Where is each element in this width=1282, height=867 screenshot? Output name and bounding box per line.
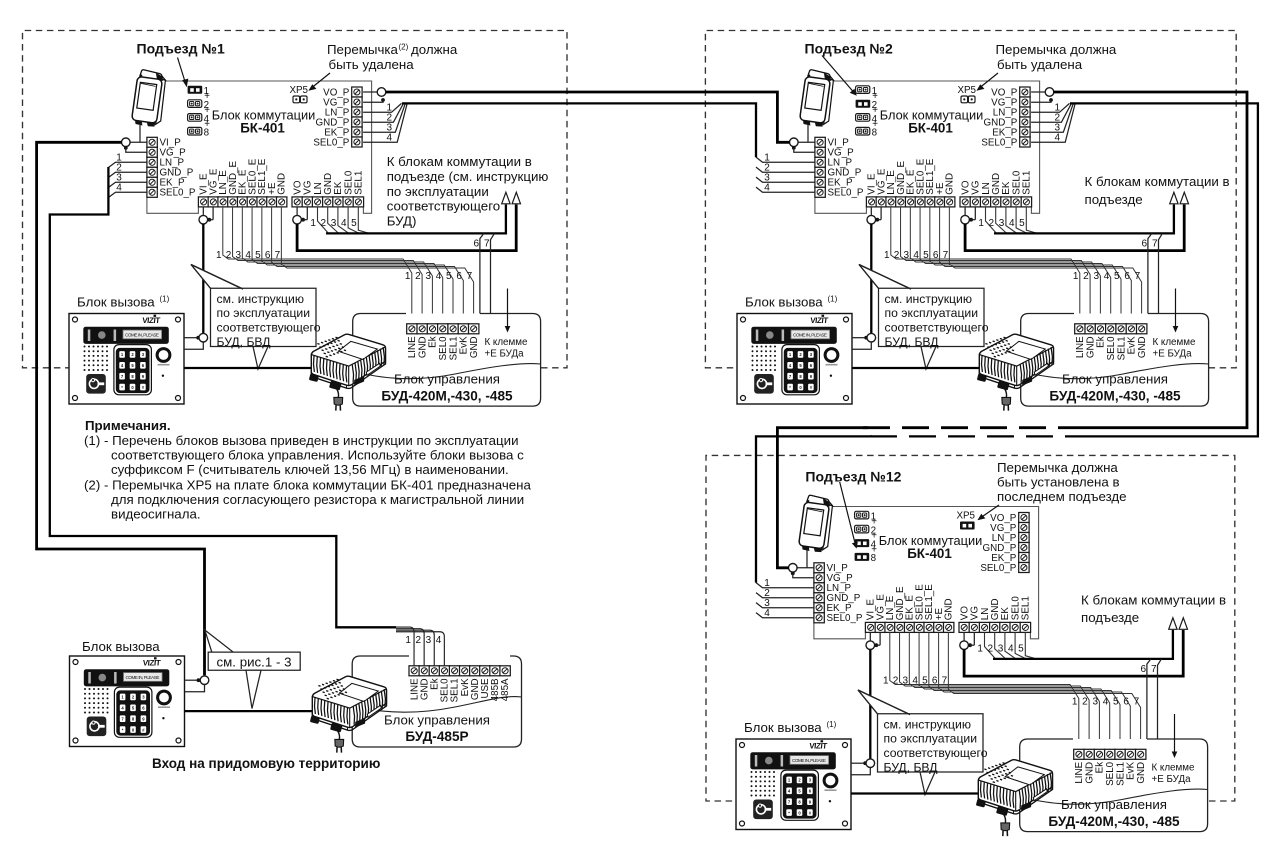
svg-text:6: 6 <box>1123 697 1129 708</box>
svg-text:3: 3 <box>904 250 910 261</box>
svg-text:подъезде: подъезде <box>1085 192 1143 207</box>
svg-text:2: 2 <box>415 271 421 282</box>
jumper 1 entrance 2 (open) <box>856 86 870 94</box>
svg-text:по эксплуатации: по эксплуатации <box>217 306 311 320</box>
callout см. инструкцию <box>858 690 910 715</box>
svg-text:7: 7 <box>1151 664 1157 675</box>
svg-text:Блок управления: Блок управления <box>1061 797 1167 812</box>
svg-text:+Е БУДа: +Е БУДа <box>485 349 525 360</box>
svg-text:1: 1 <box>977 644 983 655</box>
svg-text:Подъезд №1: Подъезд №1 <box>137 40 225 56</box>
svg-text:XP5: XP5 <box>289 85 308 96</box>
svg-text:5: 5 <box>1018 644 1024 655</box>
junction node at VI_P <box>797 567 814 569</box>
svg-text:подъезде: подъезде <box>1081 610 1139 625</box>
svg-text:2: 2 <box>894 250 900 261</box>
jumper 8 entrance 12 (closed) <box>855 553 870 561</box>
terminal strip VO_P..SEL0_P (right) entrance 2 <box>981 87 1030 148</box>
svg-text:Блок вызова: Блок вызова <box>77 295 155 310</box>
svg-text:4: 4 <box>436 635 442 646</box>
terminal strip LINE..GND БУД <box>1075 324 1148 361</box>
terminal strip LINE..GND БУД <box>1074 749 1147 786</box>
BK-401 board outline entrance 2 <box>831 81 1040 213</box>
node at gate call panel <box>185 679 200 681</box>
svg-text:4: 4 <box>764 183 770 194</box>
svg-text:БУД, БВД: БУД, БВД <box>885 335 940 349</box>
svg-text:8: 8 <box>872 128 878 139</box>
svg-text:Блок вызова: Блок вызова <box>745 295 823 310</box>
wires 1-5 from LN..SEL1 to floor bus <box>986 207 1038 234</box>
wires 1-4 to next entrance <box>363 103 407 142</box>
svg-text:3: 3 <box>425 271 431 282</box>
wire LINE call panel to БУД <box>851 792 997 794</box>
svg-text:2: 2 <box>1082 697 1088 708</box>
svg-text:Перемычка должна: Перемычка должна <box>997 460 1118 475</box>
svg-text:5: 5 <box>922 676 928 687</box>
svg-text:3: 3 <box>998 644 1004 655</box>
svg-text:К блокам коммутации в: К блокам коммутации в <box>1081 592 1226 607</box>
svg-text:К клемме: К клемме <box>1152 762 1195 773</box>
svg-text:см. инструкцию: см. инструкцию <box>884 717 971 731</box>
svg-text:Подъезд №12: Подъезд №12 <box>805 468 901 484</box>
svg-text:6: 6 <box>473 239 479 250</box>
junction node at VO_P (video out) <box>363 91 377 93</box>
svg-text:4: 4 <box>764 608 770 619</box>
camera (video intercom) entrance 12 <box>798 495 834 554</box>
svg-text:соответствующего: соответствующего <box>217 321 321 335</box>
wire video trunk entrance1 to entrance2 <box>386 92 790 142</box>
jumper 2 entrance 2 (closed) <box>856 100 871 108</box>
svg-text:4: 4 <box>1055 133 1061 144</box>
jumper 1 entrance 1 (closed) <box>188 86 203 94</box>
svg-text:Подъезд №2: Подъезд №2 <box>805 40 893 56</box>
svg-text:5: 5 <box>923 250 929 261</box>
svg-text:7: 7 <box>1134 697 1140 708</box>
svg-text:по эксплуатации: по эксплуатации <box>884 732 978 746</box>
svg-text:6: 6 <box>933 250 939 261</box>
svg-text:последнем подъезде: последнем подъезде <box>997 489 1127 504</box>
call panel (блок вызова) entrance 12 <box>736 739 851 830</box>
wire camera to VI_P <box>806 550 808 568</box>
svg-text:Блок вызова: Блок вызова <box>744 720 822 735</box>
wire 4-bus entrance1 to gate БУД-485Р <box>50 167 396 627</box>
wires 1-7 VI_E strip to control unit <box>223 207 474 324</box>
control unit БУД (power supply unit drawing) <box>309 334 386 410</box>
wavy separator <box>1020 789 1208 804</box>
node at call panel <box>852 337 867 339</box>
svg-text:6: 6 <box>265 250 271 261</box>
terminal strip VO..SEL1 entrance 2 <box>960 170 1033 207</box>
wire (thick) VI_E node down to call panel <box>869 650 871 760</box>
wire (thick) VI_E node down to call panel <box>870 224 872 334</box>
call panel (блок вызова) entrance 2 <box>737 314 852 405</box>
svg-text:6: 6 <box>1124 271 1130 282</box>
svg-text:3: 3 <box>999 218 1005 229</box>
wire LINE call panel to БУД <box>184 367 330 369</box>
svg-text:7: 7 <box>467 271 473 282</box>
control unit box БУД-420М <box>1020 739 1208 832</box>
svg-text:4: 4 <box>1008 644 1014 655</box>
terminal strip VI_E..GND entrance 1 <box>198 158 287 207</box>
svg-text:соответствующего: соответствующего <box>387 199 500 214</box>
node at call panel <box>851 762 866 764</box>
junction node under VO <box>296 207 298 216</box>
svg-text:БУД, БВД: БУД, БВД <box>217 335 272 349</box>
arrow triangles to floor switching blocks <box>1170 192 1178 204</box>
svg-text:3: 3 <box>1093 271 1099 282</box>
terminal strip VI_P..SEL0_P (left) entrance 1 <box>147 137 196 198</box>
svg-text:7: 7 <box>1152 239 1158 250</box>
svg-text:К клемме: К клемме <box>485 337 528 348</box>
svg-text:(1): (1) <box>827 720 837 729</box>
wire LINE gate panel to БУД-485Р <box>185 710 322 712</box>
svg-text:2: 2 <box>988 644 994 655</box>
dashed boundary box entrance 2 <box>705 31 1236 368</box>
svg-text:см. рис.1 - 3: см. рис.1 - 3 <box>217 654 292 669</box>
floor bus (thick) to triangle 1 <box>994 205 1174 234</box>
svg-text:3: 3 <box>236 250 242 261</box>
svg-text:4: 4 <box>1103 697 1109 708</box>
jumper 8 entrance 1 (open) <box>188 127 202 135</box>
terminal strip VO_P..SEL0_P (right) entrance 1 <box>313 87 362 148</box>
svg-text:Перемычка должна: Перемычка должна <box>996 42 1117 57</box>
svg-text:4: 4 <box>913 250 919 261</box>
svg-text:соответствующего блока управле: соответствующего блока управления. Испол… <box>111 448 524 463</box>
wires 1-4 into БУД-485Р <box>396 627 444 666</box>
arrow triangles to floor switching blocks <box>1169 618 1177 630</box>
svg-text:2: 2 <box>226 250 232 261</box>
junction node at VI_P <box>130 141 147 143</box>
terminal strip VI_P..SEL0_P (left) entrance 12 <box>814 563 863 624</box>
svg-text:видеосигнала.: видеосигнала. <box>111 507 201 522</box>
wavy separator <box>352 697 521 713</box>
wavy separator <box>1021 364 1209 379</box>
dashed boundary box entrance 1 <box>23 31 568 368</box>
wire (video) VO node to riser triangle <box>964 630 1183 676</box>
svg-text:Блок управления: Блок управления <box>384 712 490 727</box>
svg-text:(1) - Перечень блоков вызова п: (1) - Перечень блоков вызова приведен в … <box>84 433 519 448</box>
svg-text:1: 1 <box>978 218 984 229</box>
svg-text:7: 7 <box>1135 271 1141 282</box>
junction node under VI_E <box>202 207 204 216</box>
jumper 4 entrance 12 (closed) <box>855 539 870 547</box>
floor bus (thick) to triangle 1 <box>326 205 506 234</box>
svg-text:5: 5 <box>255 250 261 261</box>
svg-text:(1): (1) <box>160 295 170 304</box>
callout см. инструкцию <box>859 265 911 290</box>
svg-text:см. инструкцию: см. инструкцию <box>885 292 972 306</box>
wire (video) VO node to riser triangle <box>965 205 1184 251</box>
svg-text:7: 7 <box>943 250 949 261</box>
wire 4-bus trunk entrance1 to entrance2 <box>402 103 756 157</box>
svg-text:по эксплуатации: по эксплуатации <box>885 306 979 320</box>
junction node under VI_E <box>870 207 872 216</box>
svg-text:3: 3 <box>331 218 337 229</box>
jumper 4 entrance 1 (open) <box>188 114 202 122</box>
svg-text:1: 1 <box>884 250 890 261</box>
svg-text:4: 4 <box>387 133 393 144</box>
svg-text:см. инструкцию: см. инструкцию <box>217 292 304 306</box>
svg-text:8: 8 <box>204 128 210 139</box>
svg-text:К клемме: К клемме <box>1153 337 1196 348</box>
svg-text:3: 3 <box>1092 697 1098 708</box>
svg-text:Примечания.: Примечания. <box>85 418 171 433</box>
svg-text:Блок управления: Блок управления <box>394 372 500 387</box>
camera (video intercom) entrance 1 <box>131 69 167 128</box>
svg-text:для подключения согласующего р: для подключения согласующего резистора к… <box>111 492 524 507</box>
svg-text:должна: должна <box>411 42 458 57</box>
svg-text:БУД): БУД) <box>387 214 417 229</box>
svg-text:4: 4 <box>436 271 442 282</box>
svg-text:подъезде (см. инструкцию: подъезде (см. инструкцию <box>387 169 549 184</box>
svg-text:Блок вызова: Блок вызова <box>82 639 160 654</box>
camera (video intercom) entrance 2 <box>799 69 835 128</box>
svg-text:(2): (2) <box>399 42 409 51</box>
jumper 2 entrance 1 (open) <box>188 100 202 108</box>
wire camera to VI_P <box>807 124 809 142</box>
wire (thick) VI_E node down to call panel <box>202 224 204 334</box>
wires 1-7 VI_E strip to control unit <box>890 632 1141 749</box>
svg-text:6: 6 <box>1140 664 1146 675</box>
terminal strip VI_E..GND entrance 12 <box>865 584 954 633</box>
jumper 2 entrance 12 (open) <box>855 525 869 533</box>
svg-text:быть установлена в: быть установлена в <box>997 474 1120 489</box>
junction node at VO_P (video out) <box>1031 91 1045 93</box>
svg-text:К блокам коммутации в: К блокам коммутации в <box>387 154 532 169</box>
control unit БУД-485Р (power supply unit drawing) <box>310 676 387 752</box>
svg-text:(1): (1) <box>828 295 838 304</box>
jumper 4 entrance 2 (open) <box>856 114 870 122</box>
svg-text:4: 4 <box>912 676 918 687</box>
wires 1-4 to trunk bus (entrance 1) <box>108 162 146 197</box>
svg-text:4: 4 <box>1009 218 1015 229</box>
wires 6,7 (EvK,GND) to floor bus <box>1133 233 1162 324</box>
wires 1-5 from LN..SEL1 to floor bus <box>318 207 370 234</box>
svg-text:по эксплуатации: по эксплуатации <box>387 184 489 199</box>
wires 6,7 (EvK,GND) to floor bus <box>465 233 494 324</box>
wire camera to VI_P <box>139 124 141 142</box>
svg-text:(2) - Перемычка ХР5 на плате б: (2) - Перемычка ХР5 на плате блока комму… <box>84 477 531 492</box>
terminal strip VI_P..SEL0_P (left) entrance 2 <box>815 137 864 198</box>
BK-401 board outline entrance 1 <box>163 81 372 213</box>
svg-text:XP5: XP5 <box>956 511 975 522</box>
svg-text:БК-401: БК-401 <box>907 546 952 561</box>
arrow triangles to floor switching blocks <box>502 192 510 204</box>
svg-text:5: 5 <box>1114 271 1120 282</box>
svg-text:Вход на придомовую территорию: Вход на придомовую территорию <box>152 756 380 771</box>
jumper 1 entrance 12 (open) <box>855 511 869 519</box>
svg-text:+Е БУДа: +Е БУДа <box>1152 774 1192 785</box>
wires 1-4 from trunk bus <box>756 583 814 618</box>
junction node under VO <box>964 207 966 216</box>
svg-text:4: 4 <box>245 250 251 261</box>
svg-text:2: 2 <box>1083 271 1089 282</box>
svg-text:4: 4 <box>116 183 122 194</box>
dashed boundary box entrance 12 <box>706 455 1235 801</box>
svg-text:1: 1 <box>1073 271 1079 282</box>
svg-text:суффиксом F (считыватель ключе: суффиксом F (считыватель ключей 13,56 МГ… <box>111 462 509 477</box>
svg-text:6: 6 <box>1141 239 1147 250</box>
svg-text:7: 7 <box>942 676 948 687</box>
wavy separator <box>353 364 541 379</box>
svg-text:БК-401: БК-401 <box>908 121 953 136</box>
svg-text:БУД, БВД: БУД, БВД <box>884 761 939 775</box>
svg-text:3: 3 <box>903 676 909 687</box>
wires 1-4 from trunk bus <box>756 157 815 192</box>
call panel (блок вызова) entrance 1 <box>69 314 184 405</box>
svg-text:соответствующего: соответствующего <box>884 746 988 760</box>
svg-text:3: 3 <box>426 635 432 646</box>
callout см. рис.1 - 3 <box>205 630 234 653</box>
junction node under VO <box>963 632 965 641</box>
control unit box БУД-485Р <box>352 656 521 747</box>
wires 1-7 VI_E strip to control unit <box>891 207 1142 324</box>
svg-text:БУД-420М,-430, -485: БУД-420М,-430, -485 <box>381 388 513 403</box>
svg-text:8: 8 <box>871 553 877 564</box>
wires 1-5 from LN..SEL1 to floor bus <box>985 632 1037 659</box>
junction node under VI_E <box>869 632 871 641</box>
floor bus (thick) to triangle 1 <box>993 630 1173 659</box>
svg-text:6: 6 <box>932 676 938 687</box>
svg-text:БУД-485Р: БУД-485Р <box>405 729 468 744</box>
svg-text:XP5: XP5 <box>957 85 976 96</box>
svg-text:1: 1 <box>405 635 411 646</box>
svg-text:1: 1 <box>405 271 411 282</box>
svg-text:1: 1 <box>310 218 316 229</box>
svg-text:1: 1 <box>883 676 889 687</box>
control unit box БУД-420М <box>1021 314 1209 407</box>
svg-text:4: 4 <box>341 218 347 229</box>
control unit box БУД-420М <box>353 314 541 407</box>
control unit БУД (power supply unit drawing) <box>976 760 1053 836</box>
svg-text:БК-401: БК-401 <box>240 121 285 136</box>
svg-text:Блок управления: Блок управления <box>1062 372 1168 387</box>
svg-text:Перемычка: Перемычка <box>327 42 398 57</box>
terminal strip VI_E..GND entrance 2 <box>866 158 955 207</box>
terminal strip VO..SEL1 entrance 1 <box>292 170 365 207</box>
wire (video) VO node to riser triangle <box>297 205 516 251</box>
svg-text:5: 5 <box>351 218 357 229</box>
terminal strip VO_P..SEL0_P (right) entrance 12 <box>980 513 1029 574</box>
svg-text:5: 5 <box>446 271 452 282</box>
svg-text:БУД-420М,-430, -485: БУД-420М,-430, -485 <box>1049 388 1181 403</box>
svg-text:2: 2 <box>989 218 995 229</box>
BK-401 board outline entrance 12 <box>830 507 1039 639</box>
svg-text:+Е БУДа: +Е БУДа <box>1153 349 1193 360</box>
svg-text:2: 2 <box>321 218 327 229</box>
svg-text:2: 2 <box>416 635 422 646</box>
svg-text:7: 7 <box>484 239 490 250</box>
svg-text:4: 4 <box>1104 271 1110 282</box>
svg-text:быть удалена: быть удалена <box>997 57 1083 72</box>
svg-text:5: 5 <box>1113 697 1119 708</box>
svg-text:быть удалена: быть удалена <box>329 57 415 72</box>
wires 1-4 to next entrance <box>1031 103 1075 142</box>
svg-text:1: 1 <box>216 250 222 261</box>
callout см. инструкцию <box>191 265 243 290</box>
wire video entrance1 to gate call panel <box>37 142 205 675</box>
call panel gate (блок вызова) <box>70 656 185 747</box>
svg-text:соответствующего: соответствующего <box>885 321 989 335</box>
control unit БУД (power supply unit drawing) <box>977 334 1054 410</box>
svg-text:6: 6 <box>456 271 462 282</box>
svg-text:5: 5 <box>1019 218 1025 229</box>
svg-text:К блокам коммутации в: К блокам коммутации в <box>1085 174 1230 189</box>
terminal strip LINE..GND БУД <box>407 324 480 361</box>
junction node at VI_P <box>798 141 815 143</box>
node at call panel <box>184 337 199 339</box>
svg-text:7: 7 <box>275 250 281 261</box>
svg-text:1: 1 <box>1072 697 1078 708</box>
jumper 8 entrance 2 (open) <box>856 127 870 135</box>
wire 4-bus trunk entrance2 to entrance12 <box>1070 103 1258 436</box>
wire video trunk entrance2 to entrance12 <box>1054 92 1247 428</box>
wire LINE call panel to БУД <box>852 367 998 369</box>
svg-text:2: 2 <box>893 676 899 687</box>
terminal strip VO..SEL1 entrance 12 <box>959 596 1032 633</box>
wires 6,7 (EvK,GND) to floor bus <box>1132 659 1161 750</box>
terminal strip LINE..485A БУД-485Р <box>409 666 511 703</box>
svg-text:БУД-420М,-430, -485: БУД-420М,-430, -485 <box>1048 814 1180 829</box>
